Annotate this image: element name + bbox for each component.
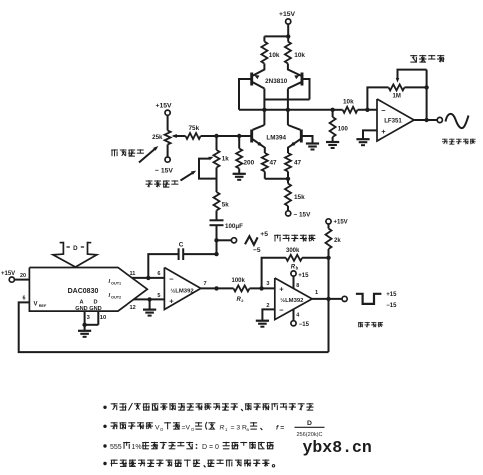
svg-text:½LM392: ½LM392 — [280, 297, 304, 304]
trimmer wiper box — [199, 159, 217, 179]
sine wave glyph — [446, 114, 469, 128]
wire 300k to node — [302, 257, 328, 259]
svg-text:6: 6 — [157, 271, 160, 277]
svg-text:5: 5 — [157, 293, 160, 299]
svg-text:+15V: +15V — [156, 103, 173, 110]
resistor 5k — [214, 192, 220, 211]
label triangle output (Chinese) — [274, 234, 281, 236]
svg-text:100k: 100k — [232, 278, 246, 284]
svg-text:LM394: LM394 — [266, 134, 286, 141]
trimmer 1k (waveform) — [216, 136, 218, 150]
wire wiper rail to output — [426, 70, 428, 120]
wire Q3 base row — [201, 135, 252, 137]
wire LF351 + input to ground — [363, 130, 377, 139]
wire integrator output — [201, 287, 234, 289]
svg-text:47: 47 — [294, 160, 302, 167]
power +15 terminal (2k) — [326, 219, 331, 224]
wire 100k to comparator + — [250, 287, 275, 289]
svg-text:11: 11 — [130, 271, 136, 277]
svg-text:LF351: LF351 — [384, 118, 402, 125]
svg-text:1: 1 — [315, 290, 318, 296]
arrow to pot — [139, 148, 157, 163]
svg-text:8: 8 — [296, 283, 299, 289]
ground (LF351 +) — [356, 138, 369, 140]
ground (comparator pin2) — [256, 320, 269, 322]
svg-text:= 3 R: = 3 R — [231, 425, 248, 432]
resistor 200 (Q3 base) — [238, 136, 240, 149]
op-amp U2b half LM392 (comparator) — [275, 278, 312, 320]
resistor 10k (right load) — [285, 42, 291, 64]
resistor 10k (left load) — [261, 42, 267, 64]
wire lower cross row / node row — [239, 109, 333, 111]
svg-text:D: D — [93, 300, 97, 306]
svg-text:10k: 10k — [343, 99, 354, 106]
svg-text:− 15V: − 15V — [294, 212, 312, 219]
svg-text:+15V: +15V — [1, 271, 15, 277]
wire pin12 to ground — [149, 299, 151, 309]
svg-text:b: b — [296, 266, 299, 271]
svg-text:−5: −5 — [253, 247, 261, 254]
svg-text:1k: 1k — [222, 156, 229, 163]
op-amp U2a half LM392 (integrator) — [164, 268, 200, 310]
svg-text:−: − — [279, 305, 284, 314]
wire 1k to 5k — [216, 168, 218, 193]
pot wiper arrow — [174, 135, 186, 137]
note bullet 1 — [103, 406, 106, 409]
wire Q2 base loop — [302, 79, 310, 100]
wire feedback loop bottom — [19, 302, 329, 352]
svg-text:200: 200 — [244, 160, 255, 167]
svg-text:− 15V: − 15V — [155, 168, 173, 175]
svg-text:75k: 75k — [189, 125, 200, 132]
note bullet 3 — [103, 444, 106, 447]
wire cap to node — [216, 225, 218, 254]
label symmetry trim (Chinese) — [111, 149, 118, 151]
svg-text:+15: +15 — [386, 292, 397, 298]
label waveform trim (Chinese) — [146, 180, 153, 182]
wire pins 3-10 join — [85, 324, 99, 326]
svg-text:R: R — [220, 425, 225, 432]
wire comparator feedback up — [262, 258, 286, 289]
note bullet 2 — [103, 425, 106, 428]
svg-text:+15V: +15V — [334, 220, 348, 226]
wire +15V drop to right load — [287, 36, 289, 41]
svg-text:10k: 10k — [269, 52, 280, 59]
wire top rail — [264, 35, 288, 37]
svg-text:20: 20 — [20, 273, 26, 279]
svg-text:+5: +5 — [260, 231, 268, 238]
svg-text:GND: GND — [89, 306, 101, 312]
svg-text:−: − — [169, 275, 174, 284]
wire LF351 output — [414, 119, 437, 121]
power -15V terminal (pot) — [165, 157, 170, 162]
wire right collector column — [287, 89, 289, 126]
svg-text:A: A — [79, 300, 83, 306]
node shaper output — [330, 108, 334, 112]
svg-text:+: + — [381, 127, 386, 136]
label square output (Chinese) — [358, 322, 363, 324]
svg-text:C: C — [179, 242, 184, 249]
svg-text:REF: REF — [39, 304, 47, 308]
svg-text:D: D — [307, 420, 312, 427]
potentiometer 1M (amplitude) — [389, 84, 405, 90]
svg-text:a: a — [247, 427, 250, 432]
square wave output terminal — [342, 296, 347, 301]
ground (100 ohm) — [326, 141, 339, 143]
svg-text:+15: +15 — [298, 273, 309, 279]
svg-text:10k: 10k — [294, 52, 305, 59]
svg-text:12: 12 — [130, 305, 136, 311]
svg-text:2N3810: 2N3810 — [265, 78, 288, 85]
resistor 300k Rb — [286, 255, 302, 261]
op-amp U3 LF351 — [377, 99, 414, 141]
svg-text:3: 3 — [266, 281, 269, 287]
wire 2k node down / feedback loop — [328, 258, 330, 352]
resistor 100 (node to gnd) — [332, 110, 334, 117]
svg-text:f =: f = — [276, 425, 284, 432]
svg-text:+: + — [169, 296, 174, 305]
transistor Q2 2N3810 right half — [301, 73, 304, 86]
svg-text:7: 7 — [204, 281, 207, 287]
svg-text:100μF: 100μF — [225, 223, 243, 230]
resistor 47 (right emitter) — [285, 153, 291, 172]
capacitor C (integrator feedback) — [148, 254, 178, 278]
svg-text:−15: −15 — [386, 303, 397, 309]
svg-text:10: 10 — [100, 315, 106, 321]
transistor Q1 2N3810 left half — [250, 73, 253, 86]
transistor Q4 LM394 right half — [300, 130, 303, 143]
arrow to trimmer — [181, 172, 195, 181]
wire left collector column — [263, 89, 265, 126]
pin 12 wire IOUT2 — [134, 298, 165, 300]
wire comparator output — [312, 298, 342, 300]
svg-text:+15V: +15V — [279, 11, 296, 18]
resistor 100k R2 — [234, 285, 250, 291]
wire Q1 base loop — [239, 79, 252, 110]
pin 11 wire IOUT1 — [132, 277, 164, 279]
ground (Q4 base) — [306, 142, 319, 144]
wire emitter join row — [265, 178, 288, 180]
svg-text:4: 4 — [296, 313, 299, 319]
wire upper cross row — [264, 99, 309, 101]
wire to LF351 inverting input — [358, 109, 378, 111]
svg-text:GND: GND — [75, 306, 87, 312]
svg-text:V: V — [34, 302, 38, 308]
ground (200 ohm) — [233, 173, 246, 175]
label sine output (Chinese) — [442, 138, 448, 140]
svg-text:100: 100 — [338, 127, 349, 133]
svg-text:DAC0830: DAC0830 — [68, 288, 99, 295]
pin 10 stub — [97, 311, 99, 325]
svg-text:ybx8.cn: ybx8.cn — [303, 438, 372, 457]
svg-text:15k: 15k — [294, 194, 305, 201]
svg-text:+: + — [279, 285, 284, 294]
svg-text:1%: 1% — [132, 444, 142, 451]
wire LF351 feedback — [367, 87, 388, 109]
svg-text:D = 0: D = 0 — [202, 444, 219, 451]
svg-text:−15: −15 — [299, 322, 310, 328]
svg-text:1M: 1M — [393, 94, 401, 100]
sine output terminal — [437, 117, 442, 122]
svg-text:25k: 25k — [152, 134, 163, 141]
resistor 47 (left emitter) — [262, 153, 268, 172]
triangle wave glyph — [245, 236, 258, 245]
pin 4 -15 supply — [293, 309, 295, 321]
svg-text:OUT1: OUT1 — [111, 281, 121, 285]
triangle output terminal — [217, 239, 232, 241]
ground (DAC) — [78, 330, 91, 332]
resistor 75k — [186, 133, 201, 139]
svg-text:2k: 2k — [334, 238, 341, 244]
svg-text:2: 2 — [241, 298, 244, 303]
capacitor 100uF — [216, 211, 218, 221]
note bullet 4 — [103, 462, 106, 465]
svg-text:3: 3 — [87, 315, 91, 321]
wire pin 2 to ground — [262, 309, 274, 320]
label amplitude adjust (Chinese) — [410, 55, 417, 57]
svg-text:555: 555 — [110, 444, 122, 451]
DAC U1 DAC0830 body — [29, 268, 147, 312]
svg-text:O: O — [191, 427, 195, 432]
svg-text:5k: 5k — [222, 202, 229, 209]
svg-text:=V: =V — [182, 425, 191, 432]
svg-text:300k: 300k — [286, 248, 300, 254]
1M wiper arrow — [398, 70, 427, 79]
svg-text:−: − — [381, 106, 386, 115]
svg-text:D: D — [73, 245, 78, 252]
svg-text:1: 1 — [225, 427, 228, 432]
svg-text:2: 2 — [266, 303, 269, 309]
digital input arrow D — [60, 242, 64, 244]
transistor Q3 LM394 left half — [250, 130, 253, 143]
power -15V terminal (tail) — [286, 211, 291, 216]
ground (IOUT2) — [143, 309, 156, 311]
wire Q4 base to ground — [301, 136, 312, 144]
potentiometer 25k — [165, 131, 171, 145]
svg-text:O: O — [160, 427, 164, 432]
svg-text:47: 47 — [270, 160, 278, 167]
pin 8 +15 supply — [293, 276, 295, 289]
svg-text:OUT2: OUT2 — [111, 296, 121, 300]
svg-text:6: 6 — [23, 296, 26, 302]
resistor 2k — [328, 224, 330, 229]
resistor 15k (tail) — [287, 179, 289, 184]
pin 3 stub — [84, 311, 86, 325]
svg-text:½LM392: ½LM392 — [170, 288, 194, 295]
resistor 10k (to LF351) — [333, 109, 343, 111]
square wave glyph — [356, 294, 382, 304]
